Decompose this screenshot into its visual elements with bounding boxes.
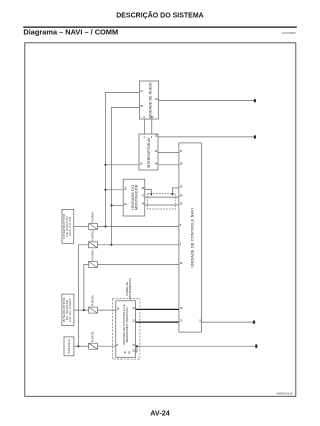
- svg-text:MW66261vE: MW66261vE: [276, 391, 292, 395]
- fuse F5: [89, 343, 98, 349]
- wire shield stub to NAVI pin33: [172, 188, 179, 194]
- audio unit U1 box: [140, 81, 159, 119]
- svg-text:MEDIDORES UNIFICADA: MEDIDORES UNIFICADA: [125, 307, 129, 342]
- wire AV switch to NAVI pin 38: [158, 164, 179, 166]
- wire fuse2 left to bateria junction: [78, 245, 88, 346]
- wire AV switch left to vertical A: [106, 164, 140, 166]
- wire medidores pin13 loop: [136, 346, 137, 352]
- wire ACC switch to fuse1: [74, 226, 89, 228]
- svg-text:EKS008B7: EKS008B7: [282, 31, 296, 35]
- junction vertical A / display pin28: [105, 189, 107, 191]
- svg-text:ACC OU ON: ACC OU ON: [68, 216, 72, 236]
- wire display pin17 to NAVI pin34: [145, 196, 179, 198]
- wire medidores pin10 to terminal: [136, 345, 256, 347]
- fuse F4: [89, 307, 98, 313]
- wire fuse3 to NAVI: [98, 264, 179, 266]
- wire audio pin27 to vertical A: [106, 93, 140, 227]
- wire audio pin56 to vertical B: [112, 108, 140, 245]
- painel de instrumentos dashed box: [113, 299, 140, 360]
- svg-text:FUSÍVEL: FUSÍVEL: [91, 211, 95, 223]
- terminal dot AV line: [254, 135, 256, 139]
- fuse F2 diagonal: [89, 242, 98, 248]
- wire fuse1 to NAVI: [98, 226, 179, 228]
- wire display pin21 to vertical B: [112, 204, 124, 206]
- wire audio bottom pin 46 to AV switch: [151, 119, 153, 134]
- wire audio bottom pin 5 to AV switch: [144, 119, 146, 134]
- fuse F5 diagonal: [89, 343, 98, 349]
- svg-text:ON OU START: ON OU START: [68, 298, 72, 322]
- wire fuse2 to NAVI: [98, 244, 179, 246]
- svg-text:MOSTRADOR: MOSTRADOR: [134, 184, 138, 210]
- junction medidores pin10/13: [136, 345, 138, 347]
- wire fuse4 to medidores: [98, 309, 116, 311]
- fuse F4 diagonal: [89, 307, 98, 313]
- svg-text:UNIDADE DE CONTROLE NAVI: UNIDADE DE CONTROLE NAVI: [191, 208, 195, 268]
- diagram frame: [25, 43, 296, 397]
- NAVI control unit box: [179, 143, 202, 332]
- wire fuse5 to medidores: [98, 345, 116, 347]
- fuse F3 diagonal: [89, 262, 98, 268]
- svg-text:INTERRUPTOR AV: INTERRUPTOR AV: [147, 137, 151, 168]
- junction vertical B / fuse2: [111, 244, 113, 246]
- wire AV switch right top to terminal: [158, 136, 254, 138]
- svg-text:INSTRUMENTOS: INSTRUMENTOS: [128, 278, 132, 300]
- wire display pin19 to NAVI pin03: [145, 204, 179, 206]
- svg-text:FUSÍVEL: FUSÍVEL: [91, 229, 95, 241]
- wire NAVI right pin to terminal: [201, 321, 253, 323]
- shield dashed box: [148, 194, 176, 209]
- fuse F1: [89, 224, 98, 230]
- junction ign vertical: [83, 309, 85, 311]
- wire audio right pin to terminal: [159, 100, 255, 102]
- junction vertical A / fuse1: [105, 226, 107, 228]
- wire bateria to fuse5: [74, 345, 89, 347]
- ON/START ignition switch box: [62, 294, 74, 325]
- AV switch box: [139, 134, 158, 170]
- terminal dot NAVI line: [253, 320, 255, 324]
- junction bateria vertical: [77, 345, 79, 347]
- medidores control unit box: [116, 301, 136, 358]
- terminal dot medidores line: [255, 344, 257, 348]
- svg-text:Diagrama – NAVI – / COMM: Diagrama – NAVI – / COMM: [23, 28, 118, 37]
- terminal dot audio line: [254, 99, 256, 103]
- svg-text:BATERIA: BATERIA: [67, 338, 71, 353]
- junction shield right: [171, 193, 173, 195]
- wire AV switch to NAVI pin 37: [158, 152, 179, 154]
- svg-text:UNIDADE DE ÁUDIO: UNIDADE DE ÁUDIO: [148, 82, 152, 118]
- wire display pin18 shield stub: [145, 189, 152, 193]
- junction shield left: [150, 193, 152, 195]
- display unit box: [123, 179, 145, 216]
- thick wire medidores pin11 to NAVI pin72: [136, 308, 179, 310]
- svg-text:AV-24: AV-24: [150, 409, 169, 418]
- thick wire medidores pin12 to NAVI pin71: [136, 321, 179, 323]
- wire display pin28 to vertical A: [106, 189, 124, 191]
- svg-text:DESCRIÇÃO DO SISTEMA: DESCRIÇÃO DO SISTEMA: [116, 11, 204, 20]
- ACC ignition switch box: [62, 209, 74, 243]
- junction vertical A / AV switch: [105, 164, 107, 166]
- fuse F3: [89, 262, 98, 268]
- heading rule: [23, 26, 297, 28]
- svg-text:FUSÍVEL: FUSÍVEL: [91, 294, 95, 306]
- junction vertical B / display pin21: [111, 204, 113, 206]
- svg-text:FUSÍVEL: FUSÍVEL: [91, 249, 95, 261]
- wire fuse3 left to ign junction: [84, 265, 89, 311]
- fuse F1 diagonal: [89, 224, 98, 230]
- fuse F2: [89, 242, 98, 248]
- wire ign switch to fuse4: [74, 309, 89, 311]
- svg-text:FUSÍVEL: FUSÍVEL: [91, 330, 95, 342]
- bateria box: [64, 337, 74, 356]
